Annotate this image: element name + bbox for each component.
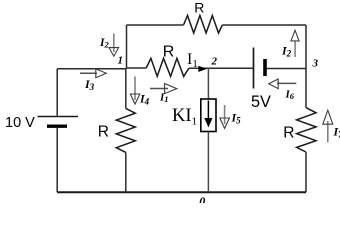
svg-text:I6: I6	[285, 89, 295, 102]
battery V2 5V positive plate	[253, 48, 255, 89]
current arrow I4 (down)	[130, 77, 140, 105]
svg-text:R: R	[98, 123, 109, 140]
current label I1 (bold)	[159, 92, 169, 105]
wire left vertical lower	[56, 128, 58, 192]
svg-text:0: 0	[199, 194, 205, 203]
wire left horizontal (source to node 1)	[57, 68, 126, 70]
svg-text:2: 2	[211, 56, 218, 68]
arrowhead into node 2 (filled)	[198, 66, 207, 72]
svg-text:R: R	[283, 124, 294, 141]
node label 1	[118, 55, 124, 67]
current arrow I3 (right)	[80, 69, 106, 78]
resistor R (middle)	[146, 58, 189, 76]
svg-text:I2: I2	[99, 37, 109, 50]
svg-text:1: 1	[118, 55, 124, 67]
battery V1 10V positive plate	[38, 116, 79, 118]
value label 5V	[251, 93, 271, 111]
current label I1 (serif, at node 2)	[187, 51, 198, 70]
wire dependent source to bottom	[207, 132, 209, 193]
wire top horizontal right segment	[222, 24, 306, 26]
dependent source arrow (down)	[204, 101, 212, 128]
wire bottom horizontal	[57, 191, 306, 193]
svg-text:3: 3	[312, 58, 319, 70]
wire middle resistor to battery	[189, 67, 253, 69]
value label 10 V	[5, 115, 35, 131]
node label 2	[211, 56, 218, 68]
current label I4	[139, 92, 150, 107]
current label I7	[333, 125, 340, 140]
value label R (top)	[194, 0, 204, 16]
wire node 2 down to dependent source	[207, 68, 209, 99]
battery V1 10V negative plate	[47, 124, 67, 127]
wire right vertical lower	[305, 152, 307, 192]
value label KI1	[172, 106, 197, 128]
battery V2 5V negative plate	[263, 59, 267, 76]
current label I6	[285, 89, 295, 102]
svg-text:R: R	[194, 0, 204, 16]
current arrow I2 (left, down)	[109, 34, 119, 57]
wire battery to node 3	[267, 68, 307, 70]
svg-text:I1: I1	[159, 92, 169, 105]
resistor R (left vertical)	[116, 108, 135, 152]
value label R (left)	[98, 123, 109, 140]
current arrow I5 (down)	[220, 105, 230, 128]
current arrow I2 (right, up)	[291, 30, 299, 57]
current arrow I1 (right, below node 1)	[150, 84, 177, 94]
node label 3	[312, 58, 319, 70]
wire node 1 down to resistor	[125, 68, 127, 108]
current arrow I7 (up)	[323, 110, 333, 142]
svg-text:10 V: 10 V	[5, 115, 35, 131]
resistor R (right vertical)	[297, 108, 316, 152]
current label I2 (right)	[281, 44, 292, 59]
current arrow I6 (left)	[269, 79, 297, 89]
wire right vertical upper (top wire to node 3)	[305, 25, 307, 108]
resistor R (top)	[184, 16, 223, 34]
wire top-left vertical (node 1 to top wire)	[126, 25, 128, 68]
dependent current source KI1 box	[201, 99, 216, 132]
node label 0	[199, 194, 205, 208]
current label I3	[84, 77, 95, 92]
current label I5	[231, 111, 242, 126]
value label R (middle)	[163, 43, 175, 60]
wire left vertical upper	[56, 69, 58, 117]
value label R (right)	[283, 124, 294, 141]
svg-text:5V: 5V	[251, 93, 271, 111]
wire top horizontal left segment	[127, 24, 184, 26]
current label I2 (left)	[99, 37, 109, 50]
svg-text:R: R	[163, 43, 175, 60]
wire left resistor to bottom	[125, 152, 127, 192]
wire node 1 to middle resistor	[127, 67, 147, 69]
